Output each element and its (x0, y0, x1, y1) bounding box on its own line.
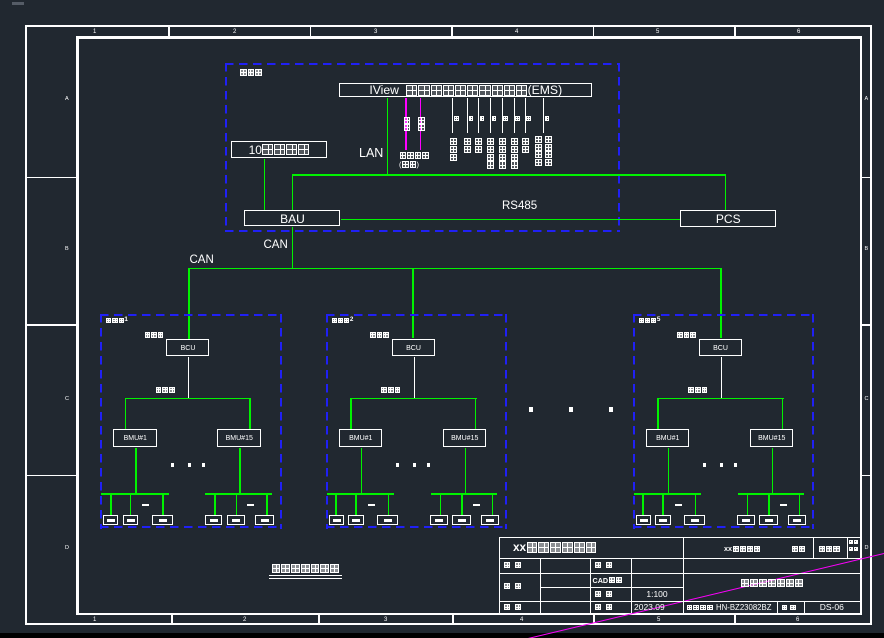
label 菊花链 (155, 387, 175, 394)
ui artifact top-left (12, 2, 24, 5)
ellipsis on pack row under BMU#1 (675, 504, 682, 506)
text BCU (392, 339, 436, 357)
value 2023.09 (634, 603, 665, 612)
battery cluster dashed box 电池舱1 (100, 314, 282, 316)
row label 校核 (504, 604, 522, 611)
wire white BCU to daisy-chain bus (414, 357, 415, 398)
label 设计编号 and number (686, 604, 713, 611)
black strip bottom of screenshot (0, 633, 884, 638)
text BMU#1 (339, 429, 384, 448)
ellipsis on pack row under BMU#1 (368, 504, 375, 506)
text BMU#15 (750, 429, 795, 448)
ellipsis dots between cluster 2 and cluster 5 (0, 0, 884, 1)
wire pack drops under BMU#15 (0, 0, 884, 1)
wire pack drops under BMU#1 (0, 0, 884, 1)
label 设计阶段 (849, 540, 859, 545)
vertical label 门禁 (464, 138, 472, 154)
pack boxes under BMU#1 (0, 0, 884, 1)
text 10寸组态屏 (231, 141, 328, 159)
wire bus drop to BMU#1 (657, 398, 659, 430)
box BCU (699, 339, 742, 356)
label 工程 (791, 545, 805, 552)
box BAU (244, 210, 340, 226)
ellipsis dots between BMUs (0, 0, 884, 1)
pack boxes under BMU#15 (0, 0, 884, 1)
label 电池舱5 (638, 317, 660, 323)
vertical label 电梯 (521, 138, 529, 154)
magenta construction line crossing title block (528, 553, 884, 638)
wire pack drops under BMU#15 (0, 0, 884, 1)
vertical label 消防火警 (499, 138, 507, 169)
label on magenta drop 1 视频 (403, 117, 411, 131)
vertical label 消防联动 (511, 138, 519, 169)
battery cluster dashed box 电池舱2 (326, 314, 508, 316)
label RS485 (502, 201, 537, 213)
label on magenta drop 2 视频 (418, 117, 426, 131)
row label 比例 (595, 591, 613, 598)
box PCS (680, 210, 776, 227)
text BMU#1 (113, 429, 158, 448)
wire CAN drop to cluster 1 (188, 268, 190, 340)
ellipsis on pack row under BMU#15 (247, 504, 254, 506)
outer border frame (25, 25, 872, 27)
box BMU#1 (646, 429, 690, 447)
box BMU#1 (339, 429, 383, 447)
wire from 10寸组态屏 down to BAU (264, 159, 266, 211)
vertical label 管道喷淋 (487, 138, 495, 169)
wire pack bus under BMU#15 (205, 493, 272, 495)
box BMU#1 (113, 429, 157, 447)
wire pack bus under BMU#15 (431, 493, 498, 495)
box BMU#15 (443, 429, 487, 447)
label 控制柜 (240, 69, 263, 77)
text PCS (680, 210, 777, 228)
row label 日期 (595, 604, 613, 611)
label 图号 (781, 604, 796, 611)
ellipsis dots between BMUs (0, 0, 884, 1)
ellipsis on pack row under BMU#1 (142, 504, 149, 506)
wire pack bus under BMU#15 (738, 493, 805, 495)
label 菊花链 (688, 387, 708, 394)
wire bus drop to BMU#1 (350, 398, 352, 430)
wire CAN drop to cluster 2 (412, 268, 414, 339)
zone ticks top edge (0, 0, 884, 1)
vertical label 水浸 (475, 138, 483, 154)
wire pack drops under BMU#15 (0, 0, 884, 1)
box 10寸组态屏 (231, 141, 327, 158)
wire CAN bus horizontal (188, 268, 722, 270)
wire BAU down to CAN bus (292, 227, 294, 269)
wire daisy-chain bus (350, 398, 477, 400)
wire daisy-chain bus (125, 398, 252, 400)
text BCU (699, 339, 743, 357)
zone numbers top (0, 0, 884, 1)
wire bus drop to BMU#15 (475, 398, 477, 430)
wire BMU#1 down to pack bus (668, 448, 670, 493)
label 变频空调(预留) (399, 152, 429, 160)
wire BMU#15 down to pack bus (772, 448, 774, 493)
title block outline (0, 0, 884, 1)
row label 批准 (504, 562, 522, 569)
pack boxes under BMU#1 (0, 0, 884, 1)
project name xx储能项目 (724, 545, 761, 552)
box BMU#15 (217, 429, 261, 447)
zone numbers bottom (0, 0, 884, 1)
wire bus drop to BMU#1 (125, 398, 127, 430)
wire bus drop to BMU#15 (249, 398, 251, 430)
battery cluster dashed box 电池舱5 (633, 314, 815, 316)
wire pack drops under BMU#1 (0, 0, 884, 1)
label CAN lower (190, 255, 214, 267)
label 高压箱 (370, 332, 390, 339)
title underline double (269, 575, 342, 576)
text BMU#15 (217, 429, 262, 448)
label 高压箱 (677, 332, 697, 339)
vertical label 柴油发电机组(预留) (535, 136, 543, 166)
ellipsis on pack row under BMU#15 (473, 504, 480, 506)
value DS-06 (804, 601, 859, 613)
wire BMU#15 down to pack bus (239, 448, 241, 493)
wire BMU#1 down to pack bus (135, 448, 137, 493)
zone ticks bottom edge (0, 0, 884, 1)
wire EMS drop to LAN bus (387, 98, 389, 175)
text BMU#15 (443, 429, 488, 448)
wire bus drop to BMU#15 (782, 398, 784, 430)
wire magenta drop 1 (405, 98, 407, 150)
wires white signal drops under EMS (0, 0, 884, 1)
pack boxes under BMU#15 (0, 0, 884, 1)
wire white BCU to daisy-chain bus (188, 357, 189, 398)
zone ticks left edge (0, 0, 884, 1)
pack boxes under BMU#1 (0, 0, 884, 1)
row label 设计 (595, 562, 613, 569)
inner border frame (76, 36, 862, 39)
wire pack bus under BMU#1 (101, 493, 169, 495)
zone letters left (0, 0, 884, 1)
wire magenta drop 2 (420, 98, 422, 150)
row label 审核 (504, 583, 522, 590)
title block grid lines (0, 0, 884, 1)
company name xx设计有限公司 (513, 542, 597, 554)
value 1:100 (631, 587, 683, 601)
wire pack bus under BMU#1 (634, 493, 702, 495)
text BAU (244, 210, 341, 227)
label CAN upper (264, 240, 288, 252)
wire LAN bus left drop into BAU (292, 174, 294, 210)
text BCU (166, 339, 210, 357)
pack boxes under BMU#15 (0, 0, 884, 1)
EMS box IView 智能触控屏监控一体机(EMS) (339, 83, 592, 98)
wire BMU#15 down to pack bus (465, 448, 467, 493)
wire BMU#1 down to pack bus (361, 448, 363, 493)
vertical label 监控器 (449, 138, 457, 161)
zone ticks right edge (0, 0, 884, 1)
row label CAD制图 (593, 577, 623, 584)
control cabinet dashed enclosure 控制柜 (225, 63, 620, 65)
wire LAN bus right drop into PCS (725, 174, 727, 210)
wire pack bus under BMU#1 (327, 493, 395, 495)
label 电池舱1 (106, 317, 128, 323)
box BCU (392, 339, 435, 356)
big sheet title 控制柜通讯拓扑 (740, 579, 803, 588)
wire daisy-chain bus (657, 398, 784, 400)
label 电池舱2 (331, 317, 353, 323)
ellipsis dots between BMUs (0, 0, 884, 1)
tiny port glyphs beside signal drops (0, 0, 884, 1)
label 菊花链 (381, 387, 401, 394)
wire LAN bus horizontal (292, 174, 727, 176)
wire CAN drop to cluster 5 (720, 268, 722, 338)
label 施工图 (819, 545, 841, 552)
EMS box text (339, 83, 593, 99)
label LAN (359, 147, 383, 160)
box BCU (166, 339, 209, 356)
ellipsis on pack row under BMU#15 (780, 504, 787, 506)
zone letters right (0, 0, 884, 1)
text BMU#1 (646, 429, 691, 448)
wire pack drops under BMU#1 (0, 0, 884, 1)
box BMU#15 (750, 429, 794, 447)
label 高压箱 (144, 332, 164, 339)
drawing title 控制柜通讯拓扑 (271, 564, 340, 574)
wire white BCU to daisy-chain bus (721, 357, 722, 398)
wire RS485 BAU to PCS (341, 219, 680, 221)
